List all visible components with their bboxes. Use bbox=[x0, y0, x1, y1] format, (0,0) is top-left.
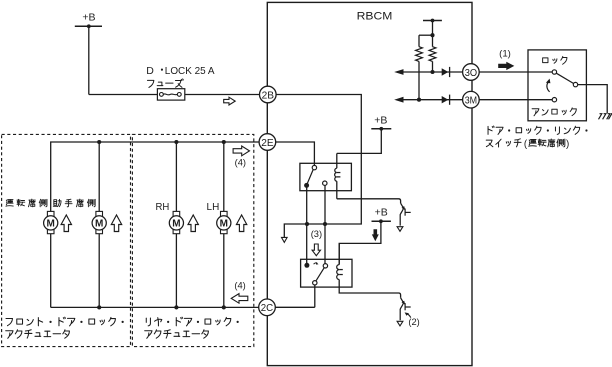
wire to resistor R1 bbox=[419, 34, 433, 36]
wire drop to motor M4 bbox=[223, 142, 225, 211]
label passenger side (kanji) bbox=[53, 199, 95, 207]
wire switch common to ground bbox=[578, 85, 608, 114]
motor M2 passenger side bbox=[92, 211, 106, 233]
relay K1 moving contact (top) bbox=[312, 165, 316, 169]
arrow up (M1 lock direction) bbox=[61, 215, 71, 232]
relay K1 coil bbox=[335, 168, 337, 181]
relay K2 coil lead top bbox=[338, 243, 340, 264]
relay K1 blade bbox=[307, 170, 313, 184]
front door lock actuator dashed box bbox=[2, 134, 131, 346]
svg-text:3O: 3O bbox=[465, 67, 477, 79]
arrow up (M3 lock direction) bbox=[188, 215, 198, 232]
wire 3M line bbox=[398, 99, 463, 101]
node 3M bbox=[463, 91, 480, 108]
wire relay K1 NO to relay K2 bbox=[324, 185, 326, 263]
relay K2 box (unlock relay) bbox=[301, 259, 352, 287]
relay K2 coil bbox=[337, 265, 339, 280]
relay K1 common (filled) bbox=[304, 183, 309, 188]
relay K2 NO contact (top) bbox=[323, 264, 327, 268]
wire fuse to 2B bbox=[185, 94, 260, 96]
arrow (1) flow right bbox=[498, 62, 514, 70]
power bar (pull-up supply) bbox=[423, 19, 442, 23]
svg-text:2E: 2E bbox=[261, 137, 273, 149]
relay K2 common (filled) bbox=[304, 263, 309, 268]
svg-text:M: M bbox=[220, 219, 228, 230]
diode D1 (3O line) bbox=[442, 67, 450, 77]
switch blade bbox=[556, 73, 573, 83]
junction 2C bus / M3 bbox=[174, 305, 178, 309]
junction 2E bus / M4 bbox=[222, 140, 226, 144]
switch common contact bbox=[573, 82, 577, 86]
arrow continuation down (left branch) bbox=[282, 237, 288, 242]
label driver side (kanji) bbox=[6, 199, 47, 207]
svg-text:RBCM: RBCM bbox=[357, 11, 393, 23]
wire motor M1 to 2C bus bbox=[50, 234, 52, 308]
wire motor M2 to 2C bus bbox=[98, 234, 100, 308]
wire +B to relay K1 coil bbox=[337, 129, 382, 154]
resistor R1 top lead bbox=[418, 35, 420, 47]
resistor R2 top lead bbox=[432, 35, 434, 47]
svg-text:+B: +B bbox=[375, 207, 388, 219]
switch unlock contact bbox=[552, 98, 556, 102]
arrow pointer to (2) bbox=[405, 312, 411, 317]
label fuse (katakana) bbox=[147, 79, 183, 88]
svg-text:M: M bbox=[95, 219, 103, 230]
power symbol +B (relay K1 coil) bbox=[371, 114, 391, 130]
wire relay K2 to 2C bbox=[314, 285, 316, 307]
svg-text:(2): (2) bbox=[408, 317, 419, 327]
svg-text:M: M bbox=[172, 219, 180, 230]
label rear door lock actuator line2 bbox=[145, 330, 209, 339]
resistor R1 bottom lead to 3M line bbox=[418, 61, 420, 99]
arrow left (3M internal) bbox=[394, 97, 403, 103]
svg-text:LOCK 25 A: LOCK 25 A bbox=[165, 65, 215, 77]
wire 3O to lock contact bbox=[479, 71, 552, 73]
svg-text:D: D bbox=[146, 65, 154, 77]
motor M3 RH bbox=[169, 211, 183, 233]
door lock link switch box bbox=[528, 50, 586, 121]
relay K2 moving contact (bottom) bbox=[313, 281, 317, 285]
svg-text:): ) bbox=[566, 139, 569, 150]
resistor R2 bottom lead to 3O line bbox=[432, 61, 434, 72]
wire 2C to relay K2 bbox=[275, 306, 315, 308]
wire +B down to fuse bbox=[88, 26, 90, 94]
wire relay K1 common to relay K2 bbox=[306, 187, 308, 263]
diode D2 (3M line) bbox=[442, 95, 450, 105]
relay K1 coil lead top bbox=[336, 153, 338, 168]
junction 2C bus / M4 bbox=[222, 305, 226, 309]
arrow flow right (after fuse) bbox=[224, 97, 236, 105]
relay K1 coil lead bottom bbox=[336, 181, 338, 199]
label D LOCK 25 A fuse bbox=[146, 65, 214, 77]
wire 3M to unlock contact bbox=[479, 99, 552, 101]
node 2E bbox=[259, 134, 276, 151]
wire bar down bbox=[432, 21, 434, 36]
relay K1 NO contact bbox=[323, 181, 327, 185]
label door lock link switch line1 bbox=[488, 126, 587, 134]
wire 2E bus left + drop to motor M1 bbox=[51, 142, 259, 211]
svg-text:(3): (3) bbox=[311, 229, 322, 239]
svg-text:(4): (4) bbox=[235, 157, 246, 167]
arrow (3) down bbox=[312, 244, 320, 256]
svg-text:RH: RH bbox=[156, 202, 170, 213]
svg-text:+B: +B bbox=[374, 114, 387, 126]
junction feed / relay1 NO line bbox=[323, 222, 327, 226]
motor M4 LH bbox=[217, 211, 231, 233]
wire relay K1 coil to transistor Q1 bbox=[337, 199, 401, 203]
wire to fuse D-LOCK bbox=[89, 94, 158, 96]
arrow up (M4 lock direction) bbox=[236, 215, 246, 232]
RBCM module box bbox=[267, 2, 472, 365]
wire 3O line bbox=[398, 71, 463, 73]
junction R1 / 3M line bbox=[417, 98, 421, 102]
power symbol +B (battery feed, top left) bbox=[75, 12, 102, 29]
resistor R1 bbox=[416, 47, 423, 62]
svg-text:2B: 2B bbox=[262, 89, 274, 101]
relay K2 blade bbox=[316, 268, 324, 281]
ground (chassis) bbox=[599, 114, 612, 120]
svg-text:(1): (1) bbox=[499, 48, 511, 59]
svg-text:M: M bbox=[47, 219, 55, 230]
junction feed / relay1 common line bbox=[305, 222, 309, 226]
resistor R2 bbox=[429, 47, 436, 62]
fuse D-LOCK 25 A bbox=[157, 89, 184, 100]
svg-text:LH: LH bbox=[207, 202, 220, 213]
wire motor M4 to 2C bus bbox=[223, 234, 225, 308]
svg-text:+B: +B bbox=[82, 12, 95, 24]
node 3O bbox=[463, 64, 480, 81]
label unlock (katakana) bbox=[532, 108, 576, 116]
power symbol +B (relay K2 coil) bbox=[372, 207, 391, 224]
arrow (4) right near 2E bbox=[233, 146, 249, 156]
junction 2C bus / M2 bbox=[97, 305, 101, 309]
junction pull-up split bbox=[430, 33, 434, 37]
svg-text:2C: 2C bbox=[261, 302, 274, 314]
wire 2B feed: right, down, left to branch bbox=[276, 95, 361, 238]
label front door lock actuator line1 bbox=[6, 317, 124, 326]
wire 2E to relay K1 contact bbox=[276, 142, 315, 165]
wire 2C bus bbox=[51, 306, 259, 308]
wire motor M3 to 2C bus bbox=[175, 234, 177, 308]
node 2C bbox=[259, 299, 276, 316]
arrow (4) left near 2C bbox=[231, 294, 248, 304]
wire drop to motor M2 bbox=[98, 142, 100, 211]
wire +B to relay K2 coil bbox=[339, 221, 381, 264]
wire drop to motor M3 bbox=[175, 142, 177, 211]
label door lock link switch line2 bbox=[486, 139, 569, 150]
transistor Q1 (coil driver output) bbox=[400, 203, 411, 225]
node 2B bbox=[260, 86, 277, 103]
arrow flow down (+B feed) bbox=[372, 229, 379, 241]
svg-text:(4): (4) bbox=[234, 280, 245, 290]
arrow left (3O internal) bbox=[394, 69, 403, 75]
relay K2 actuate arrow (tiny) bbox=[314, 262, 319, 265]
relay K1 box (lock relay) bbox=[300, 163, 352, 190]
wire relay K2 coil to transistor Q2 bbox=[339, 280, 400, 298]
transistor Q2 (coil driver output) bbox=[400, 298, 411, 320]
arrow up (M2 lock direction) bbox=[111, 215, 121, 232]
switch lock contact bbox=[552, 70, 556, 74]
label lock (katakana) bbox=[543, 56, 567, 64]
junction 2E bus / M2 bbox=[97, 140, 101, 144]
label front door lock actuator line2 bbox=[6, 330, 70, 339]
svg-text:3M: 3M bbox=[465, 95, 477, 107]
junction R2 / 3O line bbox=[430, 70, 434, 74]
switch actuate arrow bbox=[546, 79, 551, 92]
rear door lock actuator dashed box bbox=[132, 134, 253, 346]
label rear door lock actuator line1 bbox=[146, 317, 239, 326]
junction 2E bus / M3 bbox=[174, 140, 178, 144]
motor M1 driver side bbox=[44, 211, 58, 233]
